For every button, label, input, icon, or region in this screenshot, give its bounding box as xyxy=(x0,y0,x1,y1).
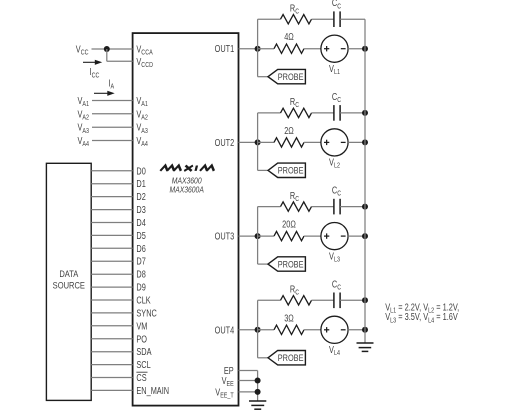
svg-text:CS: CS xyxy=(136,372,146,383)
label VL3 xyxy=(329,250,340,263)
pin label VEE xyxy=(222,375,234,388)
note VL voltages line 1 xyxy=(385,301,459,314)
svg-text:D2: D2 xyxy=(136,191,146,202)
wire D9 from data source xyxy=(91,286,132,288)
resistor 3Ω (OUT4 load) xyxy=(274,325,304,334)
pin label D7 xyxy=(136,256,146,267)
wire to RC (OUT3) xyxy=(258,206,281,208)
probe symbol (OUT2) xyxy=(268,163,305,177)
label ICC xyxy=(90,66,100,79)
label MAX3600 xyxy=(172,176,203,186)
svg-text:D5: D5 xyxy=(136,230,146,241)
node bus VL3 xyxy=(362,233,368,239)
wire D0 from data source xyxy=(91,170,132,172)
node bus VL2 xyxy=(362,139,368,145)
wire D4 from data source xyxy=(91,222,132,224)
wire to VCCD pin xyxy=(107,60,133,62)
source VL2 xyxy=(321,129,348,156)
wire D8 from data source xyxy=(91,273,132,275)
wire RC to CC (OUT1) xyxy=(312,18,334,20)
pin label EP xyxy=(224,365,234,376)
pin label SDA xyxy=(136,346,151,357)
svg-text:PROBE: PROBE xyxy=(278,259,304,270)
svg-text:D0: D0 xyxy=(136,165,146,176)
wire EP/VEE/VEE_T bus xyxy=(257,371,259,401)
label VL2 xyxy=(329,157,340,170)
pin label VA2 xyxy=(136,108,148,121)
wire D7 from data source xyxy=(91,260,132,262)
wire SDA from data source xyxy=(91,351,132,353)
node OUT2 junction xyxy=(255,139,261,145)
label VL1 xyxy=(329,63,340,76)
source VL3 xyxy=(321,223,348,250)
capacitor CC (OUT4) xyxy=(333,293,335,309)
node bus VL1 xyxy=(362,46,368,52)
wire node to load resistor (OUT1) xyxy=(258,48,274,50)
pin label OUT1 xyxy=(215,43,235,54)
svg-text:20Ω: 20Ω xyxy=(282,219,296,230)
pin label OUT2 xyxy=(215,137,235,148)
wire probe drop (OUT1) xyxy=(257,49,259,77)
svg-text:OUT2: OUT2 xyxy=(215,137,235,148)
wire VA1 to pin xyxy=(92,100,133,102)
pin label D3 xyxy=(136,204,146,215)
pin label D9 xyxy=(136,282,146,293)
pin label VCCD xyxy=(136,56,153,69)
resistor RC (OUT3) xyxy=(281,202,312,211)
svg-text:OUT1: OUT1 xyxy=(215,43,235,54)
label DATA SOURCE xyxy=(59,268,78,279)
wire junction down to VCCD xyxy=(106,49,108,61)
wire CLK from data source xyxy=(91,299,132,301)
resistor RC (OUT2) xyxy=(281,108,312,117)
pin label OUT4 xyxy=(215,324,235,335)
wire CC to bus (OUT1) xyxy=(340,18,365,20)
svg-text:OUT4: OUT4 xyxy=(215,324,235,335)
pin label VEE_T xyxy=(215,386,233,399)
label VCC xyxy=(76,43,89,56)
svg-text:OUT3: OUT3 xyxy=(215,231,235,242)
ground (VEE) xyxy=(249,400,266,402)
wire probe drop (OUT4) xyxy=(257,330,259,358)
MAXIM logo xyxy=(160,166,215,171)
capacitor CC (OUT3) xyxy=(333,199,335,215)
svg-text:2Ω: 2Ω xyxy=(284,125,294,136)
label PROBE (OUT4) xyxy=(278,352,304,363)
pin label VA1 xyxy=(136,95,148,108)
svg-text:4Ω: 4Ω xyxy=(284,31,294,42)
pin label D1 xyxy=(136,178,146,189)
wire EP pin xyxy=(239,370,258,372)
wire riser to RC branch (OUT2) xyxy=(257,113,259,142)
wire resistor to VL2 xyxy=(304,141,321,143)
resistor RC (OUT4) xyxy=(281,296,312,305)
label RC (OUT3) xyxy=(290,190,300,203)
wire VA2 to pin xyxy=(92,113,133,115)
wire D3 from data source xyxy=(91,209,132,211)
wire CS from data source xyxy=(91,377,132,379)
wire VL1 to bus xyxy=(348,48,365,50)
wire riser to RC branch (OUT4) xyxy=(257,300,259,330)
wire resistor to VL1 xyxy=(304,48,321,50)
pin label D4 xyxy=(136,217,146,228)
pin label D5 xyxy=(136,230,146,241)
label RC (OUT4) xyxy=(290,283,300,296)
svg-text:D8: D8 xyxy=(136,269,146,280)
wire RC to CC (OUT4) xyxy=(312,299,334,301)
pin label VCCA xyxy=(136,43,153,56)
wire EN_MAIN from data source xyxy=(91,389,132,391)
wire VA3 to pin xyxy=(92,126,133,128)
wire node to load resistor (OUT4) xyxy=(258,329,274,331)
pin label VA4 xyxy=(136,135,148,148)
wire VM from data source xyxy=(91,325,132,327)
label RC (OUT2) xyxy=(290,96,300,109)
label 2Ω xyxy=(284,125,294,136)
wire VL2 to bus xyxy=(348,141,365,143)
wire CC to bus (OUT3) xyxy=(340,206,365,208)
node bus top (OUT2) xyxy=(362,110,368,116)
wire SCL from data source xyxy=(91,364,132,366)
pin label VA3 xyxy=(136,122,148,135)
IC U1 MAX3600/MAX3600A body xyxy=(133,33,239,406)
node VCC junction xyxy=(104,46,110,52)
resistor 20Ω (OUT3 load) xyxy=(274,231,304,240)
wire D5 from data source xyxy=(91,234,132,236)
label MAX3600A xyxy=(170,185,204,195)
wire VEE pin xyxy=(239,380,258,382)
ground (load return) xyxy=(357,342,374,344)
label PROBE (OUT2) xyxy=(278,165,304,176)
label VL4 xyxy=(329,344,340,357)
DATA SOURCE block xyxy=(46,163,91,400)
pin label OUT3 xyxy=(215,231,235,242)
pin label D6 xyxy=(136,243,146,254)
svg-text:SYNC: SYNC xyxy=(136,307,156,318)
svg-text:PROBE: PROBE xyxy=(278,165,304,176)
pin label SYNC xyxy=(136,307,156,318)
pin label SCL xyxy=(136,359,150,370)
label CC (OUT3) xyxy=(332,185,342,198)
node OUT4 junction xyxy=(255,327,261,333)
label 4Ω xyxy=(284,31,294,42)
wire riser to RC branch (OUT3) xyxy=(257,207,259,237)
wire resistor to VL3 xyxy=(304,235,321,237)
svg-text:3Ω: 3Ω xyxy=(284,312,294,323)
wire PO from data source xyxy=(91,338,132,340)
svg-text:DATA: DATA xyxy=(59,268,78,279)
wire node to load resistor (OUT2) xyxy=(258,141,274,143)
wire resistor to VL4 xyxy=(304,329,321,331)
svg-text:PROBE: PROBE xyxy=(278,71,304,82)
wire CC to bus (OUT4) xyxy=(340,299,365,301)
wire riser to RC branch (OUT1) xyxy=(257,19,259,49)
node VEE_T junction xyxy=(255,389,261,395)
probe symbol (OUT4) xyxy=(268,351,305,365)
label 3Ω xyxy=(284,312,294,323)
label PROBE (OUT3) xyxy=(278,259,304,270)
wire to RC (OUT4) xyxy=(258,299,281,301)
svg-text:PROBE: PROBE xyxy=(278,352,304,363)
svg-text:MAX3600A: MAX3600A xyxy=(170,185,204,195)
pin label CLK xyxy=(136,294,150,305)
svg-text:VM: VM xyxy=(136,320,147,331)
wire probe drop (OUT3) xyxy=(257,236,259,264)
svg-text:CLK: CLK xyxy=(136,294,150,305)
wire CC to bus (OUT2) xyxy=(340,112,365,114)
wire OUT4 pin to node xyxy=(239,329,258,331)
wire SYNC from data source xyxy=(91,312,132,314)
label CC (OUT4) xyxy=(332,278,342,291)
label VA1 (external) xyxy=(77,95,89,108)
wire VA4 to pin xyxy=(92,140,133,142)
wire to RC (OUT2) xyxy=(258,112,281,114)
svg-text:D4: D4 xyxy=(136,217,146,228)
label VA2 (external) xyxy=(77,108,89,121)
label VA4 (external) xyxy=(77,135,89,148)
label PROBE (OUT1) xyxy=(278,71,304,82)
svg-text:EN_MAIN: EN_MAIN xyxy=(136,385,169,396)
capacitor CC (OUT2) xyxy=(333,105,335,121)
pin label CS xyxy=(136,372,146,383)
svg-text:D9: D9 xyxy=(136,282,146,293)
label IA xyxy=(108,78,114,91)
source VL1 xyxy=(321,35,348,62)
capacitor CC (OUT1) xyxy=(333,11,335,27)
source VL4 xyxy=(321,316,348,343)
svg-text:SDA: SDA xyxy=(136,346,151,357)
wire D1 from data source xyxy=(91,183,132,185)
wire OUT2 pin to node xyxy=(239,141,258,143)
pin label EN_MAIN xyxy=(136,385,169,396)
svg-text:D3: D3 xyxy=(136,204,146,215)
svg-text:D1: D1 xyxy=(136,178,146,189)
label VA3 (external) xyxy=(77,122,89,135)
pin label VM xyxy=(136,320,147,331)
svg-text:SCL: SCL xyxy=(136,359,150,370)
wire probe drop (OUT2) xyxy=(257,142,259,170)
note VL voltages line 2 xyxy=(385,311,458,324)
node bus VL4 xyxy=(362,327,368,333)
wire VL4 to bus xyxy=(348,329,365,331)
wire VL3 to bus xyxy=(348,235,365,237)
node bus top (OUT4) xyxy=(362,297,368,303)
arrow IA xyxy=(94,92,108,94)
wire D2 from data source xyxy=(91,196,132,198)
svg-text:D7: D7 xyxy=(136,256,146,267)
resistor RC (OUT1) xyxy=(281,15,312,24)
node OUT1 junction xyxy=(255,46,261,52)
wire D6 from data source xyxy=(91,247,132,249)
wire right bus xyxy=(364,19,366,343)
svg-text:D6: D6 xyxy=(136,243,146,254)
label CC (OUT1) xyxy=(332,0,342,11)
node OUT3 junction xyxy=(255,233,261,239)
label CC (OUT2) xyxy=(332,91,342,104)
pin label D8 xyxy=(136,269,146,280)
svg-text:PO: PO xyxy=(136,333,147,344)
wire OUT1 pin to node xyxy=(239,48,258,50)
node VEE junction xyxy=(255,378,261,384)
pin label D2 xyxy=(136,191,146,202)
wire VEE_T pin xyxy=(239,391,258,393)
wire RC to CC (OUT3) xyxy=(312,206,334,208)
wire node to load resistor (OUT3) xyxy=(258,235,274,237)
label RC (OUT1) xyxy=(290,2,300,15)
wire OUT3 pin to node xyxy=(239,235,258,237)
label 20Ω xyxy=(282,219,296,230)
resistor 4Ω (OUT1 load) xyxy=(274,44,304,53)
resistor 2Ω (OUT2 load) xyxy=(274,138,304,147)
probe symbol (OUT1) xyxy=(268,69,305,83)
wire VCC to VCCA pin xyxy=(92,48,133,50)
probe symbol (OUT3) xyxy=(268,257,305,271)
node bus top (OUT3) xyxy=(362,204,368,210)
svg-text:SOURCE: SOURCE xyxy=(53,280,86,291)
wire RC to CC (OUT2) xyxy=(312,112,334,114)
wire to RC (OUT1) xyxy=(258,18,281,20)
pin label D0 xyxy=(136,165,146,176)
pin label PO xyxy=(136,333,147,344)
arrow ICC xyxy=(83,61,96,63)
